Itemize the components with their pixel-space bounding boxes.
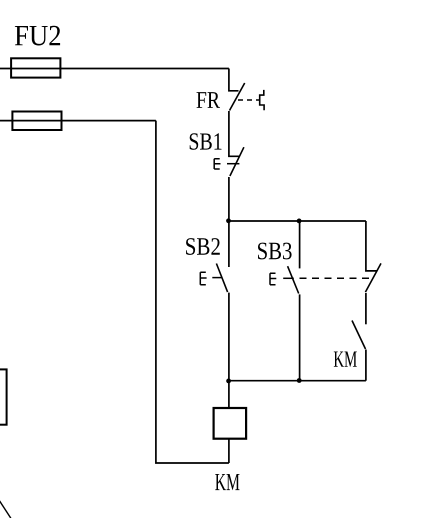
wire left return [156,121,229,463]
contact FR blade (NC) [230,83,245,111]
SB2 actuator E [200,272,206,284]
SB1 actuator link [227,163,239,165]
label KM coil [215,474,239,490]
FR dashed link [238,99,260,101]
wire KM aux to rail [365,350,367,381]
SB2 actuator link [212,277,222,279]
fuse FU2a [11,58,60,77]
fuse FU2b [12,112,61,131]
node C [226,379,231,384]
SB3 mechanical dashed link [300,277,373,279]
partial box at left edge [0,369,7,424]
node B [297,219,302,224]
coil KM [214,408,247,439]
contact SB3 blade (NO) [288,266,299,293]
wire main drop to FR [229,69,239,91]
wire node B to SB3 [299,221,301,268]
label KM aux [334,352,357,367]
wire coil to bottom [228,439,230,463]
wire SB1 to node A [228,177,230,221]
FR thermal element [260,90,264,110]
contact SB2 blade (NO) [216,264,227,293]
label SB2 [186,238,220,255]
contact SB1 blade (NC) [230,147,244,176]
wire SB3 to node D [299,294,301,380]
SB3 actuator E [270,273,276,285]
SB3 actuator link [283,277,294,279]
label SB3 [258,243,292,260]
wire right branch top [366,221,377,271]
wire FR to SB1 [229,111,240,156]
contact SB3b blade (NC) [365,263,381,292]
contact KM aux blade (NO) [352,321,366,350]
wire mid rail [229,380,366,382]
label FR [197,92,221,108]
node D [297,378,302,383]
wire between right contacts [365,293,367,324]
label FU2 [15,26,60,46]
wire top rail 2 [229,220,366,222]
wire L1 top rail [0,68,229,70]
node A [226,218,231,223]
SB1 actuator E [214,159,220,169]
label SB1 [190,133,222,150]
wire node A to SB2 [228,221,230,267]
partial diagonal line bottom-left [0,499,12,518]
wire SB2 to node C [228,293,230,381]
wire node C to coil [228,381,230,408]
wire L2 [0,120,156,122]
